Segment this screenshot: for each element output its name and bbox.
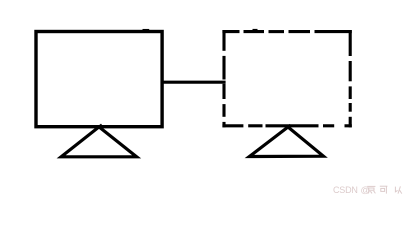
right monitor screen dashed left edge [222,30,225,127]
pen overshoot tick on right monitor top edge [253,29,258,31]
watermark CJK glyph 3 [395,186,401,193]
left monitor screen (solid rectangle) [36,32,162,127]
right monitor screen dashed right edge [349,30,352,127]
right monitor screen dashed bottom edge [222,124,351,127]
right monitor stand (triangle) [249,127,323,157]
watermark CJK glyph 2 [380,186,388,193]
pen overshoot tick on left monitor top edge [143,29,150,31]
connector wire between monitors [161,81,226,84]
left monitor stand (triangle) [61,127,136,157]
right stand apex overshoot stroke [288,125,291,127]
right monitor screen (dashed rectangle) top edge [222,30,351,33]
svg-text:CSDN: CSDN [333,185,358,195]
watermark CJK glyph 1 [367,186,375,193]
left stand apex overshoot stroke [99,125,102,127]
